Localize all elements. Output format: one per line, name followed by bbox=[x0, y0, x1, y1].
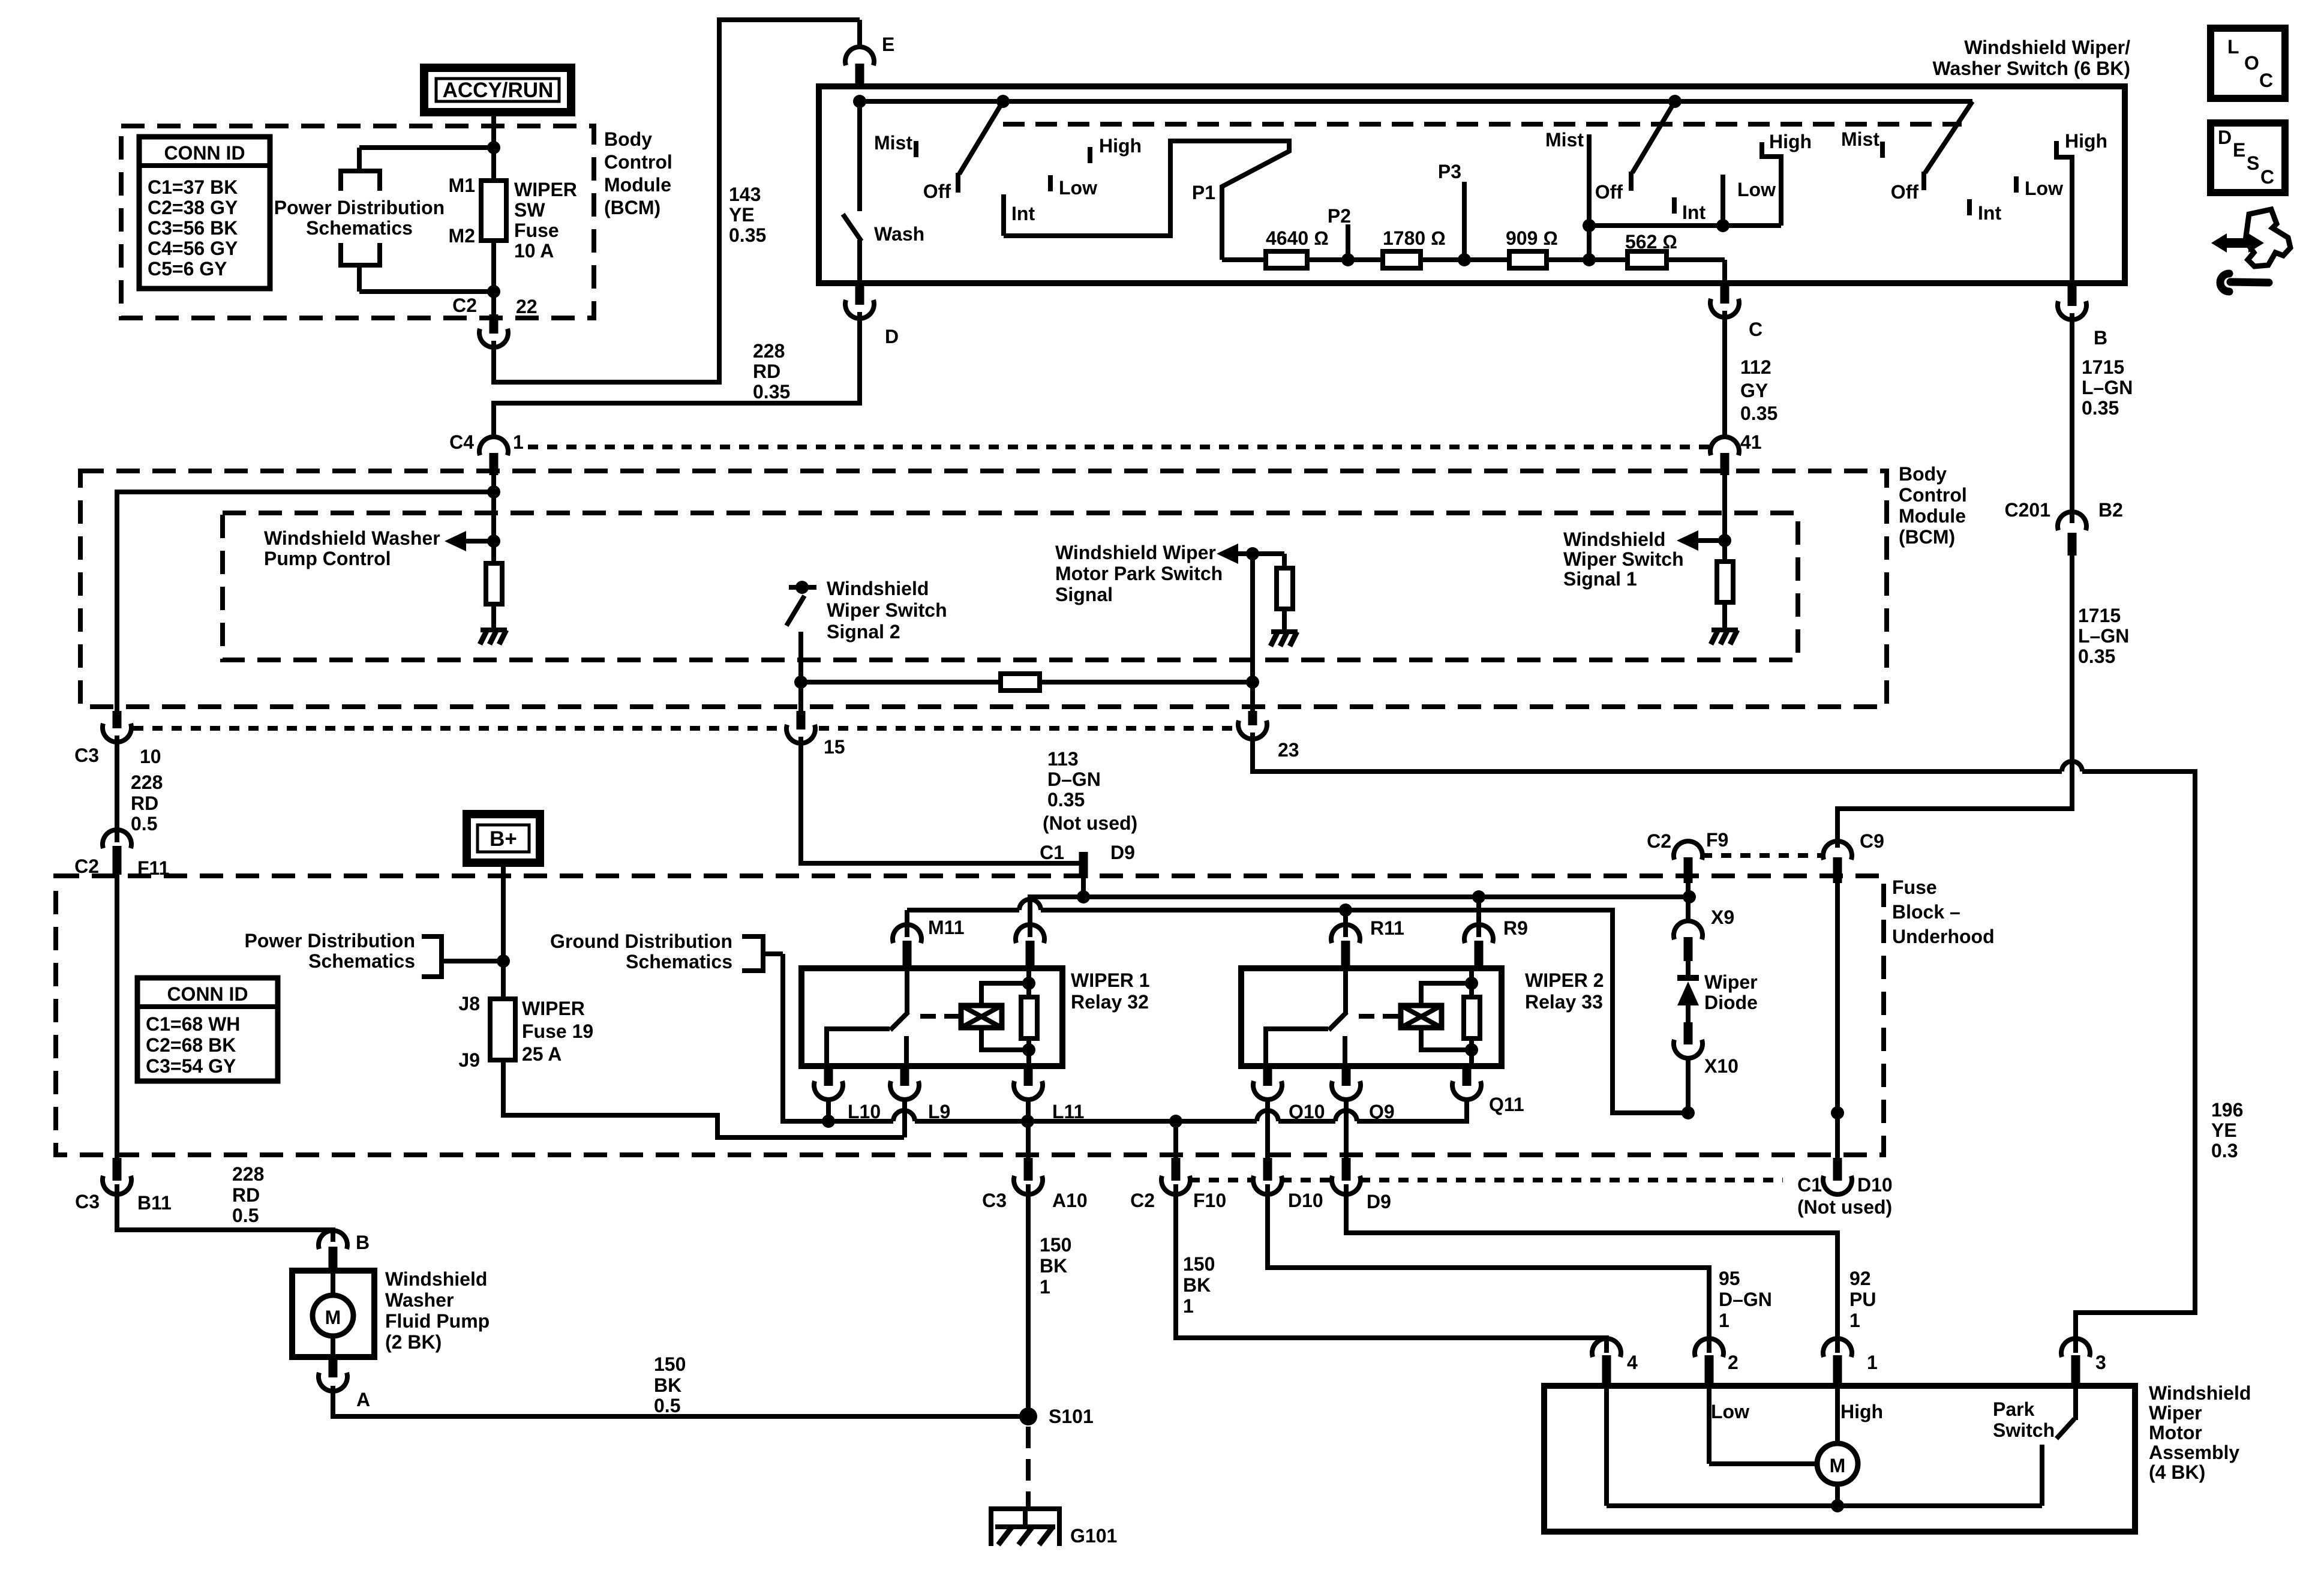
connector L9 bbox=[890, 1066, 950, 1137]
svg-text:M2: M2 bbox=[449, 225, 475, 247]
svg-text:WIPER: WIPER bbox=[522, 998, 585, 1019]
svg-text:RD: RD bbox=[131, 792, 158, 814]
svg-text:L: L bbox=[2227, 36, 2239, 58]
ground (signal 1) bbox=[1711, 630, 1738, 644]
svg-text:Underhood: Underhood bbox=[1892, 926, 1995, 947]
svg-text:P3: P3 bbox=[1438, 161, 1461, 182]
wire label 143 YE 0.35 bbox=[729, 184, 766, 246]
svg-text:C201: C201 bbox=[2005, 499, 2051, 521]
BCM label (top) bbox=[604, 128, 672, 218]
svg-text:0.5: 0.5 bbox=[654, 1395, 680, 1416]
wire label 228 RD 0.5 bbox=[131, 772, 163, 834]
connector C3 pin 10 bbox=[74, 711, 161, 767]
wire A10 down to S101 bbox=[1026, 1184, 1031, 1416]
svg-text:Washer: Washer bbox=[385, 1289, 454, 1311]
wire label 228 RD 0.5 (2) bbox=[232, 1163, 264, 1226]
svg-text:C1: C1 bbox=[1040, 842, 1064, 863]
power distribution reference bracket 2 bbox=[245, 930, 503, 977]
connector C3 A10 bbox=[982, 1158, 1088, 1211]
svg-text:4: 4 bbox=[1627, 1352, 1638, 1373]
svg-text:L9: L9 bbox=[928, 1101, 950, 1122]
fuse WIPER SW Fuse 10A bbox=[449, 175, 577, 262]
wire C down to 41 bbox=[1722, 311, 1727, 437]
wire label 113 D-GN 0.35 bbox=[1047, 748, 1101, 810]
power distribution reference bracket bbox=[274, 148, 494, 292]
splice S101 bbox=[1019, 1406, 1094, 1427]
wire F9 down to diode bbox=[1686, 882, 1691, 920]
section C contact Low bbox=[2014, 176, 2019, 193]
svg-text:B11: B11 bbox=[137, 1192, 172, 1214]
wire F11 down to C3/B11 bbox=[115, 873, 119, 1158]
svg-text:YE: YE bbox=[2211, 1119, 2237, 1141]
svg-text:Schematics: Schematics bbox=[306, 217, 413, 239]
wire label 228 RD 0.35 bbox=[753, 340, 790, 403]
wire fuse to C2 connector bbox=[491, 241, 496, 314]
svg-text:(2 BK): (2 BK) bbox=[385, 1331, 442, 1353]
wiper motor M bbox=[1709, 1386, 1858, 1506]
svg-text:Low: Low bbox=[1737, 179, 1776, 200]
svg-text:C2: C2 bbox=[452, 295, 477, 316]
svg-text:Q9: Q9 bbox=[1369, 1101, 1395, 1122]
relay 32 WIPER 1 box bbox=[801, 968, 1062, 1066]
series resistor between signal2 and park signal bbox=[801, 674, 1253, 691]
svg-text:C5=6 GY: C5=6 GY bbox=[148, 258, 227, 280]
wire label 1715 L-GN 0.35 lower bbox=[2078, 605, 2129, 667]
svg-text:(Not used): (Not used) bbox=[1797, 1196, 1892, 1218]
connector 3 bbox=[2061, 1338, 2106, 1386]
svg-text:WIPER 2: WIPER 2 bbox=[1525, 969, 1604, 991]
svg-text:Body: Body bbox=[604, 128, 652, 150]
wire label 112 GY 0.35 bbox=[1740, 356, 1777, 424]
svg-text:0.35: 0.35 bbox=[1047, 789, 1085, 810]
svg-text:Assembly: Assembly bbox=[2149, 1442, 2239, 1463]
svg-text:92: 92 bbox=[1849, 1268, 1871, 1289]
wire 113 continues to 196 YE down bbox=[2076, 772, 2195, 1353]
BCM label (middle) bbox=[1899, 463, 1967, 548]
svg-text:Windshield: Windshield bbox=[2149, 1382, 2251, 1404]
section A contact Mist bbox=[914, 141, 918, 157]
wire label 150 BK 0.5 bbox=[654, 1353, 686, 1416]
svg-text:(4 BK): (4 BK) bbox=[2149, 1461, 2205, 1483]
BCM inner dashed box bbox=[223, 513, 1798, 660]
svg-text:L10: L10 bbox=[848, 1101, 881, 1122]
svg-text:1715: 1715 bbox=[2082, 356, 2124, 378]
svg-text:B: B bbox=[2094, 327, 2107, 349]
svg-text:Windshield: Windshield bbox=[385, 1268, 487, 1290]
svg-text:X10: X10 bbox=[1704, 1055, 1739, 1077]
svg-text:Mist: Mist bbox=[1545, 129, 1584, 151]
svg-text:10: 10 bbox=[140, 746, 161, 767]
svg-text:F10: F10 bbox=[1193, 1190, 1226, 1211]
ground (washer driver) bbox=[480, 630, 507, 644]
svg-text:Fluid Pump: Fluid Pump bbox=[385, 1310, 490, 1332]
svg-text:M: M bbox=[325, 1307, 341, 1328]
svg-text:C1: C1 bbox=[1797, 1174, 1822, 1196]
connector D bbox=[845, 284, 899, 347]
section B contact Int bbox=[1672, 197, 1677, 214]
windshield washer pump control label and arrow bbox=[264, 527, 500, 569]
section B output wire to C bbox=[1722, 260, 1727, 286]
svg-text:228: 228 bbox=[131, 772, 163, 793]
wire B11 to pump B bbox=[117, 1184, 333, 1242]
svg-text:1: 1 bbox=[513, 431, 524, 453]
CONN ID table (BCM) bbox=[139, 137, 270, 289]
connector C3 B11 bbox=[75, 1158, 172, 1214]
connector 23 bbox=[1238, 711, 1299, 761]
svg-text:Pump Control: Pump Control bbox=[264, 548, 391, 569]
wire C3/10 down to C2/F11 bbox=[115, 736, 119, 842]
svg-text:D9: D9 bbox=[1367, 1191, 1391, 1212]
svg-text:1780 Ω: 1780 Ω bbox=[1383, 227, 1446, 249]
svg-text:S: S bbox=[2247, 152, 2259, 174]
svg-text:Low: Low bbox=[1059, 177, 1097, 199]
svg-text:Wiper Switch: Wiper Switch bbox=[1563, 548, 1684, 570]
section B contact Mist wired down bbox=[1545, 129, 1596, 266]
relay 32 coil bbox=[961, 983, 1029, 1050]
connector C2 pin 22 bbox=[452, 295, 538, 347]
svg-text:228: 228 bbox=[753, 340, 785, 362]
svg-text:L11: L11 bbox=[1052, 1101, 1084, 1122]
svg-text:113: 113 bbox=[1047, 748, 1079, 770]
svg-text:J9: J9 bbox=[458, 1049, 480, 1071]
svg-text:C: C bbox=[2260, 166, 2274, 188]
svg-text:P2: P2 bbox=[1328, 205, 1351, 227]
connector C4 pin 1 bbox=[449, 431, 524, 475]
svg-text:P1: P1 bbox=[1192, 182, 1215, 203]
dotted connector row C4-41 bbox=[528, 445, 1711, 449]
dotted connector row C3 row bbox=[133, 726, 1237, 731]
connector C2 F9 bbox=[1647, 829, 1728, 883]
svg-text:Low: Low bbox=[1711, 1401, 1749, 1422]
LOC box bbox=[2211, 28, 2285, 98]
svg-text:BK: BK bbox=[1040, 1255, 1067, 1277]
svg-text:Fuse: Fuse bbox=[1892, 876, 1937, 898]
wire label 92 PU 1 bbox=[1849, 1268, 1876, 1331]
svg-text:C2=68 BK: C2=68 BK bbox=[146, 1034, 236, 1056]
wire D9 to motor 1: 92 PU 1 bbox=[1346, 1184, 1837, 1353]
svg-text:1: 1 bbox=[1849, 1310, 1860, 1331]
svg-text:M1: M1 bbox=[449, 175, 475, 196]
svg-text:PU: PU bbox=[1849, 1289, 1876, 1310]
connector 4 bbox=[1592, 1338, 1638, 1386]
wire B down to C201 bbox=[2070, 313, 2074, 523]
svg-text:C1=37 BK: C1=37 BK bbox=[148, 176, 238, 198]
svg-text:15: 15 bbox=[824, 736, 845, 758]
wire label 150 BK 1 (A10) bbox=[1040, 1234, 1071, 1298]
svg-text:Mist: Mist bbox=[1841, 128, 1879, 150]
svg-text:GY: GY bbox=[1740, 380, 1768, 401]
svg-text:E: E bbox=[882, 34, 894, 55]
svg-text:X9: X9 bbox=[1711, 906, 1734, 928]
svg-text:909 Ω: 909 Ω bbox=[1506, 227, 1558, 249]
svg-text:1: 1 bbox=[1867, 1352, 1878, 1373]
svg-text:(BCM): (BCM) bbox=[604, 197, 660, 218]
wire D to C4 bbox=[494, 312, 860, 436]
connector L10 bbox=[814, 1066, 881, 1122]
section B contact High bbox=[1762, 131, 1812, 226]
section B common wire bbox=[1589, 223, 1781, 228]
svg-text:Motor Park Switch: Motor Park Switch bbox=[1055, 563, 1223, 584]
svg-text:CONN ID: CONN ID bbox=[164, 142, 245, 164]
svg-text:C3: C3 bbox=[74, 745, 99, 766]
svg-text:0.5: 0.5 bbox=[232, 1205, 259, 1226]
switch section B blade bbox=[1631, 101, 1675, 191]
wiper diode bbox=[1677, 960, 1758, 1022]
svg-text:High: High bbox=[1769, 131, 1812, 152]
connector M11 bbox=[893, 917, 964, 968]
svg-text:High: High bbox=[2065, 130, 2107, 152]
connector 1 bbox=[1823, 1338, 1878, 1386]
connector X10 bbox=[1674, 1022, 1739, 1077]
connector C2 F10 from ground bus bbox=[1130, 1121, 1226, 1211]
wire X10 to high bus bbox=[1686, 1058, 1691, 1113]
svg-text:Low: Low bbox=[2025, 178, 2063, 199]
svg-text:O: O bbox=[2244, 52, 2259, 74]
svg-text:D–GN: D–GN bbox=[1047, 769, 1101, 790]
svg-text:E: E bbox=[2233, 139, 2245, 161]
svg-text:Wiper Switch: Wiper Switch bbox=[827, 599, 947, 621]
section C contact Mist bbox=[1880, 142, 1885, 158]
svg-text:C: C bbox=[1749, 319, 1762, 340]
connector Q10 bbox=[1253, 1066, 1325, 1159]
wire C4/1 into BCM bbox=[491, 474, 496, 543]
node: branch dot bbox=[487, 485, 500, 499]
svg-text:10 A: 10 A bbox=[514, 240, 554, 262]
connector B (pump) bbox=[319, 1230, 370, 1272]
svg-text:Schematics: Schematics bbox=[308, 950, 415, 972]
connector Q9 bbox=[1332, 1066, 1395, 1159]
svg-text:A10: A10 bbox=[1052, 1190, 1088, 1211]
wire 23 down: 113 D-GN 0.35 bbox=[1253, 733, 2062, 772]
svg-text:Relay 33: Relay 33 bbox=[1525, 991, 1603, 1013]
switch section A: blade bbox=[958, 101, 1003, 193]
svg-text:C2: C2 bbox=[74, 855, 99, 877]
svg-text:D10: D10 bbox=[1288, 1190, 1323, 1211]
svg-text:1: 1 bbox=[1183, 1295, 1194, 1317]
svg-text:C2: C2 bbox=[1647, 830, 1671, 852]
node: junction dots on fuse wire bbox=[487, 141, 500, 154]
svg-text:C3=54 GY: C3=54 GY bbox=[146, 1055, 236, 1077]
connector B bbox=[2058, 284, 2107, 349]
svg-text:150: 150 bbox=[1183, 1253, 1215, 1275]
svg-text:2: 2 bbox=[1728, 1352, 1739, 1373]
svg-text:D10: D10 bbox=[1857, 1174, 1893, 1196]
svg-text:0.35: 0.35 bbox=[753, 381, 790, 403]
svg-text:Park: Park bbox=[1993, 1398, 2035, 1420]
connector C2 F11 bbox=[74, 830, 169, 879]
navigation icon: double arrow, panel outline, wrench bbox=[2211, 209, 2290, 292]
svg-text:(BCM): (BCM) bbox=[1899, 526, 1955, 548]
connector D10 (bottom) bbox=[1253, 1158, 1323, 1211]
svg-text:C2: C2 bbox=[1130, 1190, 1155, 1211]
svg-text:L–GN: L–GN bbox=[2078, 625, 2129, 647]
relay blade bus from M11 with hop bbox=[907, 899, 1689, 1113]
connector D9 (bottom) bbox=[1332, 1158, 1391, 1212]
internal feed bus wire bbox=[860, 99, 1972, 104]
svg-text:22: 22 bbox=[516, 296, 538, 317]
park signal wire down to 23 bbox=[1250, 554, 1255, 711]
svg-text:B: B bbox=[356, 1232, 370, 1253]
section A contact High bbox=[1088, 147, 1092, 163]
dotted link F9-C9 bbox=[1702, 853, 1824, 858]
wire B+ down to fuse 19 bbox=[501, 863, 506, 999]
svg-text:Body: Body bbox=[1899, 463, 1947, 485]
DESC box bbox=[2211, 123, 2285, 193]
resistor 562 ohm bbox=[1625, 231, 1677, 268]
wire branch to C3/10 bbox=[117, 492, 494, 711]
svg-text:Module: Module bbox=[1899, 505, 1966, 527]
svg-text:150: 150 bbox=[654, 1353, 686, 1375]
wash switch bbox=[843, 101, 924, 303]
BCM outer dashed box bbox=[80, 471, 1887, 707]
svg-text:Power Distribution: Power Distribution bbox=[245, 930, 415, 951]
switch title label bbox=[1932, 37, 2130, 79]
svg-text:Fuse 19: Fuse 19 bbox=[522, 1020, 593, 1042]
svg-text:1715: 1715 bbox=[2078, 605, 2121, 626]
wire F10 down to motor 4 bbox=[1176, 1184, 1607, 1353]
svg-text:143: 143 bbox=[729, 184, 761, 205]
connector A (pump) bbox=[319, 1357, 370, 1410]
svg-text:C3: C3 bbox=[75, 1191, 100, 1212]
svg-text:C3=56 BK: C3=56 BK bbox=[148, 217, 238, 239]
svg-text:Diode: Diode bbox=[1704, 992, 1758, 1013]
svg-text:WIPER: WIPER bbox=[514, 179, 577, 200]
connector C201 B2 bbox=[2005, 499, 2123, 556]
svg-text:0.35: 0.35 bbox=[2082, 397, 2119, 419]
relay 32 internals bbox=[827, 968, 960, 1066]
wire A to S101 bbox=[333, 1386, 1028, 1416]
svg-text:C2=38 GY: C2=38 GY bbox=[148, 197, 238, 218]
relay 32 coil resistor bbox=[1021, 968, 1037, 1066]
section A contact Int wired to wiper arm bbox=[1004, 141, 1289, 260]
relay 33 WIPER 2 box bbox=[1241, 968, 1502, 1066]
resistor 909 ohm bbox=[1506, 227, 1558, 268]
svg-text:Windshield Washer: Windshield Washer bbox=[264, 527, 440, 549]
svg-text:Q11: Q11 bbox=[1489, 1094, 1524, 1115]
BCM top dashed box bbox=[121, 126, 594, 318]
wire 228 RD 0.35 from C2/22 to E bbox=[494, 20, 860, 382]
svg-text:F9: F9 bbox=[1706, 829, 1728, 851]
ACCY/RUN power feed box bbox=[424, 68, 571, 112]
svg-text:1: 1 bbox=[1040, 1276, 1050, 1298]
svg-text:Off: Off bbox=[1891, 181, 1919, 203]
svg-text:Int: Int bbox=[1978, 202, 2001, 224]
svg-text:Switch: Switch bbox=[1993, 1419, 2055, 1441]
svg-text:Windshield Wiper: Windshield Wiper bbox=[1055, 542, 1216, 563]
connector R11 bbox=[1331, 917, 1404, 968]
wire label 196 YE 0.3 bbox=[2211, 1099, 2243, 1161]
connector C9 bbox=[1823, 830, 1884, 883]
node: bus junction dots bbox=[853, 95, 866, 108]
svg-text:Block –: Block – bbox=[1892, 901, 1960, 923]
svg-text:S101: S101 bbox=[1049, 1406, 1094, 1427]
svg-text:0.3: 0.3 bbox=[2211, 1140, 2238, 1161]
svg-text:C: C bbox=[2259, 70, 2273, 91]
svg-text:D9: D9 bbox=[1110, 842, 1135, 863]
svg-text:ACCY/RUN: ACCY/RUN bbox=[443, 79, 554, 102]
svg-text:Signal 1: Signal 1 bbox=[1563, 568, 1637, 590]
wiper motor assembly label bbox=[2149, 1382, 2251, 1483]
dotted link F10-D10-D9-C1/D10 bbox=[1190, 1178, 1783, 1182]
tap P3 bbox=[1438, 161, 1471, 266]
relay 33 label bbox=[1525, 969, 1604, 1013]
svg-text:Int: Int bbox=[1011, 203, 1035, 224]
tap P2 bbox=[1328, 205, 1355, 266]
svg-text:Q10: Q10 bbox=[1289, 1101, 1325, 1122]
connector Q11 bbox=[1452, 1066, 1524, 1115]
svg-text:Wash: Wash bbox=[874, 223, 924, 245]
svg-text:D: D bbox=[885, 326, 899, 347]
svg-text:(Not used): (Not used) bbox=[1043, 812, 1137, 834]
svg-text:CONN ID: CONN ID bbox=[167, 983, 248, 1005]
svg-text:Module: Module bbox=[604, 174, 671, 196]
svg-text:Wiper: Wiper bbox=[1704, 971, 1758, 993]
svg-text:G101: G101 bbox=[1070, 1525, 1117, 1547]
signal 1 pull resistor bbox=[1717, 562, 1733, 630]
wire label 1715 L-GN 0.35 upper bbox=[2082, 356, 2133, 419]
connector L11 bbox=[1014, 1066, 1084, 1159]
svg-text:0.5: 0.5 bbox=[131, 813, 157, 834]
svg-text:RD: RD bbox=[753, 361, 780, 382]
ground (park signal) bbox=[1271, 632, 1298, 646]
wire B2 down, left, to C9 bbox=[1837, 552, 2072, 848]
connector C1 D10 (not used) bbox=[1797, 1158, 1893, 1218]
svg-text:23: 23 bbox=[1278, 739, 1299, 761]
connector 15 bbox=[786, 711, 845, 758]
svg-text:Schematics: Schematics bbox=[626, 951, 732, 972]
wiper motor assembly box bbox=[1544, 1386, 2135, 1532]
svg-text:C4=56 GY: C4=56 GY bbox=[148, 238, 238, 259]
connector C bbox=[1710, 284, 1762, 340]
svg-text:0.35: 0.35 bbox=[729, 224, 766, 246]
connector X9 bbox=[1674, 906, 1734, 961]
svg-text:Power Distribution: Power Distribution bbox=[274, 197, 445, 218]
svg-text:Control: Control bbox=[604, 151, 672, 173]
resistor 4640 ohm bbox=[1266, 227, 1329, 268]
svg-text:41: 41 bbox=[1740, 431, 1762, 453]
svg-text:RD: RD bbox=[232, 1184, 260, 1206]
hop over 1715 wire bbox=[2062, 761, 2082, 772]
fuse block dashed box bbox=[56, 876, 1884, 1155]
svg-text:Wiper: Wiper bbox=[2149, 1402, 2202, 1424]
connector 2 bbox=[1695, 1338, 1739, 1386]
connector R9 bbox=[1464, 917, 1528, 968]
dashed wire S101 to G101 bbox=[1026, 1427, 1031, 1509]
svg-text:Motor: Motor bbox=[2149, 1422, 2202, 1443]
svg-text:L–GN: L–GN bbox=[2082, 377, 2133, 398]
svg-text:C3: C3 bbox=[982, 1190, 1007, 1211]
svg-text:BK: BK bbox=[654, 1374, 681, 1396]
svg-text:R11: R11 bbox=[1370, 917, 1404, 939]
fuse block label bbox=[1892, 876, 1995, 947]
node: signal2 junction bbox=[794, 676, 807, 689]
wire 41 down bbox=[1722, 474, 1727, 562]
washer pump control driver resistor bbox=[486, 541, 502, 630]
svg-text:Off: Off bbox=[923, 181, 951, 202]
svg-text:Fuse: Fuse bbox=[514, 220, 559, 241]
svg-text:High: High bbox=[1099, 135, 1142, 157]
connector E bbox=[845, 20, 894, 88]
svg-text:112: 112 bbox=[1740, 356, 1771, 378]
ground bus wire with hops bbox=[783, 954, 1467, 1121]
CONN ID table (fuse block) bbox=[137, 978, 278, 1081]
fuse WIPER Fuse 19 25A bbox=[458, 993, 593, 1071]
ground distribution reference bracket bbox=[550, 930, 783, 972]
svg-text:R9: R9 bbox=[1503, 917, 1528, 939]
svg-text:0.35: 0.35 bbox=[1740, 403, 1777, 424]
windshield wiper switch signal 2 switch bbox=[786, 578, 947, 711]
relay 33 coil resistor bbox=[1464, 968, 1480, 1066]
